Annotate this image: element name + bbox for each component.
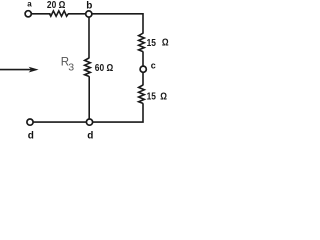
svg-text:d: d [87,130,93,141]
wire a to R1 [32,13,51,15]
wire node c to lower 15ohm [142,72,144,85]
node c [140,66,146,72]
wire lower 15ohm to bottom-right corner, left to node d [93,103,143,122]
svg-text:Ω: Ω [160,91,167,103]
wire node b down to R3 [88,17,90,58]
terminal a [25,11,31,17]
svg-text:60 Ω: 60 Ω [95,62,114,74]
svg-text:15: 15 [147,91,157,103]
svg-text:d: d [28,130,34,141]
wire R3 to node d [88,76,90,119]
node d (bottom middle) [86,119,92,125]
svg-text:b: b [86,0,92,11]
svg-text:a: a [27,0,32,8]
node b [86,11,92,17]
wire 15ohm to node c [142,51,144,66]
wire node d to terminal d [33,121,86,123]
terminal d (bottom left) [27,119,33,125]
svg-text:3: 3 [68,61,74,73]
svg-text:20 Ω: 20 Ω [47,0,66,11]
arrow (input indicator) [0,69,31,71]
resistor 15ohm (top right, vertical zigzag) [139,33,145,51]
resistor R1 20ohm (horizontal zigzag) [50,11,69,16]
svg-text:c: c [151,61,156,71]
resistor R3 60ohm (center vertical zigzag) [85,58,91,76]
wire R1 to node b [68,13,86,15]
svg-text:15: 15 [147,37,157,49]
resistor 15ohm (bottom right, vertical zigzag) [139,85,145,103]
svg-text:Ω: Ω [162,37,169,49]
wire b to top-right corner, down to 15ohm [92,14,143,34]
